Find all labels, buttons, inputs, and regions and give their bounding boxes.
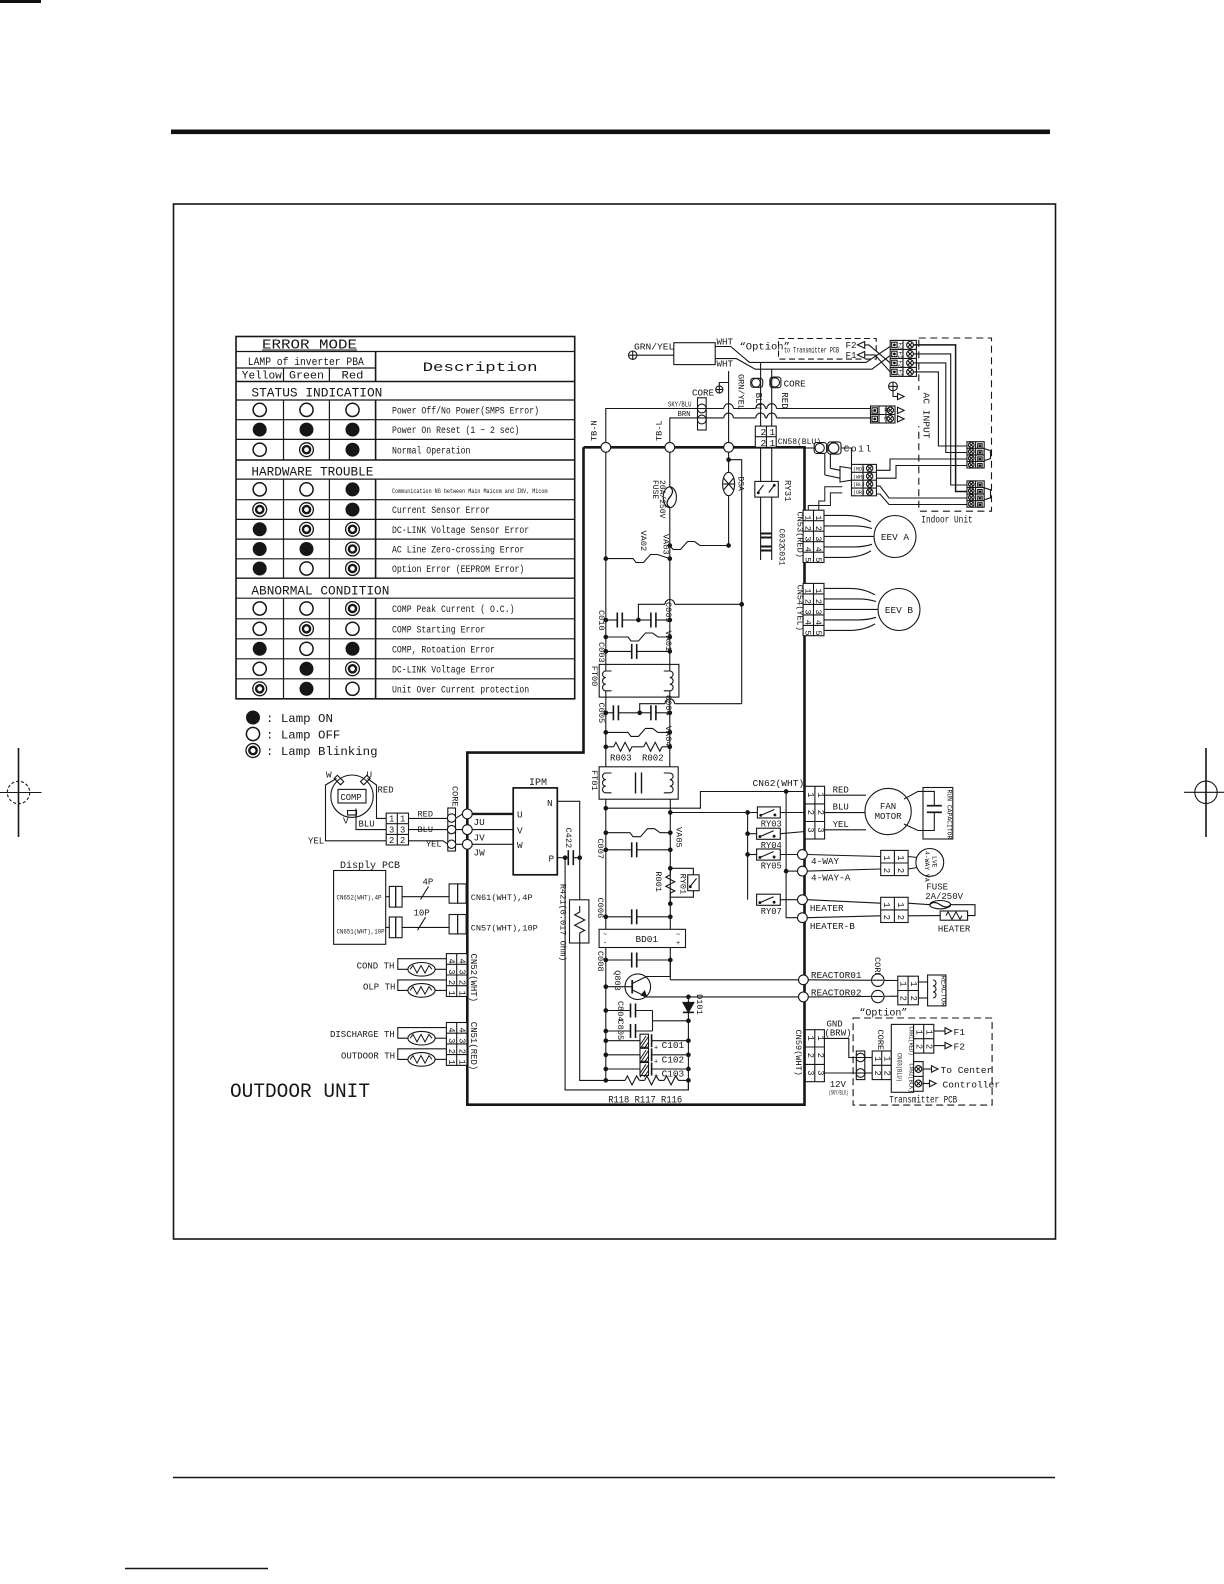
svg-text:LVE: LVE [931,856,938,868]
svg-text:Option Error (EEPROM Error): Option Error (EEPROM Error) [392,564,524,576]
AC input terminal block F1/F2 [890,340,916,377]
svg-text:BLU: BLU [833,803,849,813]
capacitor C004 [638,695,673,720]
core on comp wires [447,786,459,851]
fan motor wires [825,785,867,830]
svg-text:YEL: YEL [308,837,324,847]
svg-text:RED: RED [833,785,849,795]
svg-text:P: P [549,854,555,865]
svg-text:2: 2 [895,915,905,920]
svg-text:~: ~ [603,932,607,940]
svg-text:OUTDOOR UNIT: OUTDOOR UNIT [230,1081,370,1104]
svg-text:COMP: COMP [341,793,362,803]
wire JW to W [472,843,513,845]
svg-text:OUTDOOR TH: OUTDOOR TH [341,1051,395,1061]
thermistor DISCHARGE TH [330,1028,446,1045]
thermistor OUTDOOR TH [341,1049,446,1066]
svg-text:IPM: IPM [529,778,547,789]
svg-text:C003: C003 [596,642,606,663]
EEV B [824,588,920,630]
svg-text:GRN/YEL: GRN/YEL [634,342,675,353]
svg-text:COND TH: COND TH [357,961,395,971]
svg-text:HEATER: HEATER [810,903,844,914]
connector CN62(WHT) [753,778,826,839]
svg-text:C805: C805 [615,1020,625,1041]
svg-text:4: 4 [813,547,823,552]
indoor N/L terminal block [871,406,905,423]
svg-text:COMP, Rotoation Error: COMP, Rotoation Error [392,644,495,656]
fan motor [865,788,911,834]
svg-text:CN54(YEL): CN54(YEL) [795,585,805,631]
svg-text:2: 2 [882,1071,892,1076]
svg-text:LAMP of inverter PBA: LAMP of inverter PBA [248,357,364,369]
svg-text:1: 1 [881,902,891,907]
capacitors C032 C031 [761,497,786,566]
F1 F2 connector [913,1024,965,1053]
svg-text:C005: C005 [596,703,606,724]
capacitor C007 [595,838,672,859]
svg-text:DISCHARGE TH: DISCHARGE TH [330,1030,395,1040]
svg-text:VA04: VA04 [663,726,673,747]
svg-text:HEATER: HEATER [938,924,971,934]
connector CN51(RED) [446,1022,478,1071]
svg-text:-: - [603,940,607,948]
svg-text:2: 2 [761,438,767,449]
resistor R003 [604,742,644,763]
svg-text:4P: 4P [423,878,434,888]
svg-text:R001: R001 [653,871,663,892]
svg-text:“Option”: “Option” [740,342,790,354]
svg-text:2: 2 [913,1044,923,1049]
svg-text:BD01: BD01 [636,934,659,945]
svg-text:C032: C032 [777,529,786,548]
svg-text:N: N [547,798,553,809]
svg-text:WHT: WHT [717,358,734,369]
ground GRN/YEL left [629,342,675,360]
capacitor C103 [604,1063,690,1081]
svg-text:2: 2 [389,836,394,846]
svg-text:4: 4 [456,959,466,964]
svg-text:4: 4 [446,959,456,964]
svg-text:U: U [517,810,523,821]
svg-text:COMP Starting Error: COMP Starting Error [392,624,485,636]
node TB-L [665,442,675,452]
svg-text:12V: 12V [830,1080,847,1090]
capacitor C005 [596,703,640,724]
svg-text:JV: JV [474,833,486,844]
wire right feeder vertical [729,460,742,704]
node JU [462,809,472,819]
capacitor C010 [596,610,638,631]
svg-text:10P: 10P [414,909,430,919]
svg-text:1: 1 [400,815,405,825]
core on input wires [692,387,715,430]
svg-text:4: 4 [456,1027,466,1032]
svg-text:“Option”: “Option” [859,1008,907,1020]
svg-text:1: 1 [456,991,466,996]
svg-text:2: 2 [456,980,466,985]
svg-text:3: 3 [400,825,405,835]
connector CN53(RED) [795,510,824,562]
relay feeder vertical [747,813,749,900]
svg-text:~: ~ [676,932,680,940]
svg-text:CN59(WHT): CN59(WHT) [793,1030,803,1076]
svg-text:1: 1 [815,1036,825,1041]
svg-text:BRN: BRN [678,411,691,419]
svg-text:EEV A: EEV A [881,532,910,543]
svg-text:3: 3 [456,1038,466,1043]
svg-text:To Center: To Center [941,1065,993,1076]
svg-text:1: 1 [895,902,905,907]
varistor VA01 [604,631,673,652]
svg-text:Coil: Coil [844,444,873,455]
wire SKY/BLU to indoor N with hops [668,404,871,409]
svg-text:2: 2 [813,599,823,604]
left rail TB-N down [605,452,607,664]
reactor [918,975,946,1007]
connector CN58(BLU) [755,426,821,449]
svg-text:Yellow: Yellow [242,371,283,383]
svg-text:1: 1 [813,588,823,593]
wire RY03 feed [669,811,673,815]
svg-text:2: 2 [815,810,825,815]
connector 10P link [386,909,449,938]
svg-text:R002: R002 [642,753,664,763]
svg-text:1: 1 [898,981,908,986]
node HEATER [798,895,808,905]
svg-text:3: 3 [456,969,466,974]
varistor VA04 [604,726,673,747]
svg-text:2: 2 [446,1049,456,1054]
svg-text:R421(0.017 Ohm): R421(0.017 Ohm) [558,884,568,961]
wire bottom return P [565,858,688,1090]
svg-text:1: 1 [456,1060,466,1065]
relay RY03 [757,807,805,830]
svg-text:HARDWARE TROUBLE: HARDWARE TROUBLE [251,465,373,480]
varistor VA02 [604,531,672,563]
valve terminal block [825,448,877,496]
wire C009 mid tap [638,600,741,621]
main border box [174,204,1056,1239]
svg-text:V: V [517,825,523,836]
filter FT00 [589,664,679,697]
right registration mark [1184,748,1224,837]
svg-text:Q803: Q803 [612,970,622,991]
wire emitter to REACTOR02 [688,996,798,998]
svg-text:1: 1 [770,438,776,449]
dashed box to Transmitter PCB [779,339,877,360]
svg-text:C102: C102 [662,1054,685,1065]
ERROR MODE underline [262,349,357,351]
svg-text:C422: C422 [563,828,573,849]
varistor VA05 [604,827,684,848]
filter FT01 [589,767,678,799]
relay RY01 parallel [669,868,700,905]
fuse 20A/250V on TB-L rail [650,452,676,540]
node JW [462,839,472,849]
svg-text:CN651(WHT),10P: CN651(WHT),10P [337,929,385,936]
svg-text:CN53(RED): CN53(RED) [795,512,805,558]
4-way valve connector [807,850,908,875]
svg-text:3: 3 [805,827,815,832]
svg-text:F2: F2 [954,1042,966,1053]
svg-text:DSA: DSA [736,477,745,492]
svg-text:2: 2 [805,1053,815,1058]
transmitter pcb block [891,1024,914,1092]
thermistor COND TH [357,959,447,976]
bottom-left short line [125,1568,268,1570]
svg-text:R118 R117 R116: R118 R117 R116 [608,1094,682,1106]
svg-text:1: 1 [446,1060,456,1065]
svg-text:CN652(WHT),4P: CN652(WHT),4P [337,895,382,902]
svg-text:COMP Peak Current ( O.C.): COMP Peak Current ( O.C.) [392,604,515,616]
node 4-WAY [798,850,808,860]
svg-text:1: 1 [908,981,918,986]
svg-text:(BL): (BL) [853,482,865,488]
svg-text:(OR): (OR) [853,490,865,496]
svg-text:FT00: FT00 [589,666,599,687]
right rail TB-L down [669,559,671,665]
svg-text:REACTOR: REACTOR [939,976,947,1008]
svg-text:3: 3 [446,969,456,974]
svg-text:: Lamp OFF: : Lamp OFF [266,729,340,743]
svg-text:AC Line Zero-crossing Error: AC Line Zero-crossing Error [392,545,524,557]
svg-text:CORE: CORE [875,1030,885,1051]
capacitors C804 C805 [604,1001,690,1040]
svg-text:1: 1 [805,792,815,797]
svg-text:C101: C101 [662,1040,685,1051]
svg-text:5: 5 [803,630,813,635]
svg-text:+: + [654,1045,658,1053]
wire rail tap to CN62 pin1 [604,806,608,810]
svg-text:Unit Over Current protection: Unit Over Current protection [392,684,529,696]
svg-text:2: 2 [813,526,823,531]
node REACTOR01 [799,975,809,985]
svg-text:VA05: VA05 [674,827,684,848]
svg-text:ERROR MODE: ERROR MODE [262,339,357,354]
svg-text:Green: Green [289,371,324,383]
core on BLU/RED drops [751,377,806,390]
capacitor C008 [595,951,672,972]
svg-text:C009: C009 [663,602,673,623]
wire C004 mid tap [640,699,742,713]
svg-text:2: 2 [400,836,405,846]
svg-text:1: 1 [924,1030,934,1035]
top rule [171,130,1050,135]
wire BRN to indoor L with hops [678,413,871,418]
coil component [805,442,873,455]
svg-text:W: W [517,840,523,851]
connector CN61(WHT),4P [449,884,532,903]
transmitter input connector [872,1051,892,1080]
svg-text:TB-N: TB-N [590,420,600,441]
svg-text:2: 2 [815,1053,825,1058]
svg-text:Current Sensor Error: Current Sensor Error [392,506,490,517]
svg-text:STATUS INDICATION: STATUS INDICATION [251,385,382,400]
svg-text:2: 2 [908,996,918,1001]
svg-text:2: 2 [805,810,815,815]
svg-text:5: 5 [813,557,823,562]
svg-text:VA02: VA02 [638,531,648,552]
svg-text:4-WAY-A: 4-WAY-A [811,872,851,883]
ground symbol small [716,383,729,394]
rails below FT00 [605,697,607,767]
svg-text:3: 3 [815,1070,825,1075]
svg-text:: Lamp ON: : Lamp ON [266,712,333,726]
varistor VA03 [661,534,731,555]
indoor ground [889,382,905,400]
connector 4P link [386,878,449,908]
wire WHT lower [715,356,890,370]
relay RY04 [746,828,805,851]
svg-text:YEL: YEL [833,820,849,830]
svg-text:2: 2 [761,427,767,438]
svg-text:RY31: RY31 [782,480,792,502]
svg-text:1: 1 [913,1030,923,1035]
4-way valve coil [908,849,944,882]
svg-text:DC-LINK Voltage Error: DC-LINK Voltage Error [392,664,495,676]
fuse 2A/250V [908,882,975,915]
svg-text:3: 3 [446,1038,456,1043]
svg-text:TB-L: TB-L [655,420,665,441]
svg-text:(RD): (RD) [853,466,865,472]
svg-text:4-WAY VA: 4-WAY VA [923,851,930,882]
svg-text:4: 4 [446,1027,456,1032]
heater element [908,911,971,934]
transmitter core [856,1030,885,1080]
svg-text:RED: RED [378,786,394,796]
CN02 terminals [914,1062,1000,1092]
svg-text:HEATER-B: HEATER-B [810,921,855,932]
svg-text:(SKY/BLU): (SKY/BLU) [829,1090,849,1097]
svg-text:RY01: RY01 [678,874,688,895]
svg-text:3: 3 [813,609,823,614]
svg-text:3: 3 [815,827,825,832]
noise filter box [674,343,715,365]
wire rail to REACTOR01 [670,979,798,981]
svg-text:Communication NG between Main: Communication NG between Main Maicom and… [392,488,548,495]
svg-text:1: 1 [882,1056,892,1061]
svg-text:Power Off/No Power(SMPS Error): Power Off/No Power(SMPS Error) [392,406,539,418]
capacitor C102 [604,1048,690,1066]
svg-text:W: W [326,770,332,781]
svg-text:5: 5 [803,557,813,562]
heater connector [807,897,908,922]
svg-text:+: + [654,1059,658,1067]
wire JV to V [472,829,513,831]
svg-text:2: 2 [872,1071,882,1076]
node earth terminal [724,442,734,452]
svg-text:CORE: CORE [450,786,460,807]
connector CN54(YEL) [795,583,824,635]
svg-text:JU: JU [474,817,485,828]
wire WHT upper [715,347,890,363]
wire GND to core [824,1038,855,1057]
connector CN57(WHT),10P [449,915,538,934]
wire JU to U (thick) [472,813,513,815]
left registration mark [0,748,42,837]
svg-text:Description: Description [423,360,538,375]
svg-text:RUN CAPACITOR: RUN CAPACITOR [946,790,953,840]
svg-text:RY05: RY05 [761,862,782,872]
resistors R118 R117 R116 [604,1076,690,1106]
svg-text:Indoor Unit: Indoor Unit [921,515,972,526]
run capacitor [904,788,953,840]
resistor R002 [642,742,672,763]
svg-text:CORE: CORE [692,387,715,398]
rails below FT01 [605,799,607,1080]
svg-text:GRN/YEL: GRN/YEL [736,374,746,410]
connector CN52(WHT) [446,954,478,1003]
wire RED drop [771,369,773,426]
svg-text:MOTOR: MOTOR [875,812,903,822]
relay RY31 [755,447,792,501]
svg-text:1: 1 [446,991,456,996]
svg-text:D101: D101 [694,994,704,1015]
wire CN62 pin1 common drop [786,792,797,918]
svg-text:20A/250V: 20A/250V [657,480,666,519]
compressor COMP [326,770,373,827]
svg-text:CN57(WHT),10P: CN57(WHT),10P [471,924,538,934]
svg-text:Normal Operation: Normal Operation [392,445,470,457]
svg-text:C804: C804 [615,1001,625,1022]
svg-text:+: + [676,940,680,948]
svg-text:C010: C010 [596,610,606,631]
svg-text:(BRW): (BRW) [825,1029,852,1039]
capacitor C006 [595,898,672,925]
thermistor OLP TH [363,980,446,997]
svg-text:Power On Reset (1 ~ 2 sec): Power On Reset (1 ~ 2 sec) [392,425,519,437]
svg-text:(WH): (WH) [853,474,865,480]
svg-text:C031: C031 [777,547,786,566]
svg-text:Controller: Controller [943,1080,1001,1091]
connector CN59(WHT) [793,1030,825,1082]
vertical dividers [283,368,285,382]
svg-text:4-WAY: 4-WAY [811,856,840,867]
table row texts injected here [253,403,548,696]
svg-text:EEV B: EEV B [885,605,914,616]
svg-text:CN61(WHT),4P: CN61(WHT),4P [471,893,533,903]
IPM module [513,778,557,875]
relay RY05 [746,849,798,872]
page corner mark [0,0,41,3]
svg-text:F1: F1 [954,1027,966,1038]
svg-text:1: 1 [872,1056,882,1061]
bottom rule [173,1477,1055,1479]
svg-text:4: 4 [813,620,823,625]
indoor unit dashed box [913,338,992,526]
svg-text:F1: F1 [846,350,858,361]
svg-text:: Lamp Blinking: : Lamp Blinking [266,745,378,759]
svg-text:1: 1 [815,792,825,797]
wire BLU drop [760,362,762,426]
svg-text:FAN: FAN [880,802,896,812]
svg-text:Disply PCB: Disply PCB [340,860,400,872]
node HEATER-B [798,913,808,923]
svg-text:V: V [343,816,349,827]
resistor R001 on rail [653,867,675,904]
svg-text:C004: C004 [663,695,673,716]
outdoor unit label [230,1081,370,1104]
capacitor C003 [596,642,672,663]
svg-text:BLU: BLU [753,393,764,410]
svg-text:VA03: VA03 [661,534,671,555]
wire 12V to core [824,1072,855,1074]
transistor Q803 [604,960,690,1000]
resistor R421(0.017 Ohm) [558,884,589,961]
svg-text:2: 2 [446,980,456,985]
svg-text:R003: R003 [610,753,632,763]
